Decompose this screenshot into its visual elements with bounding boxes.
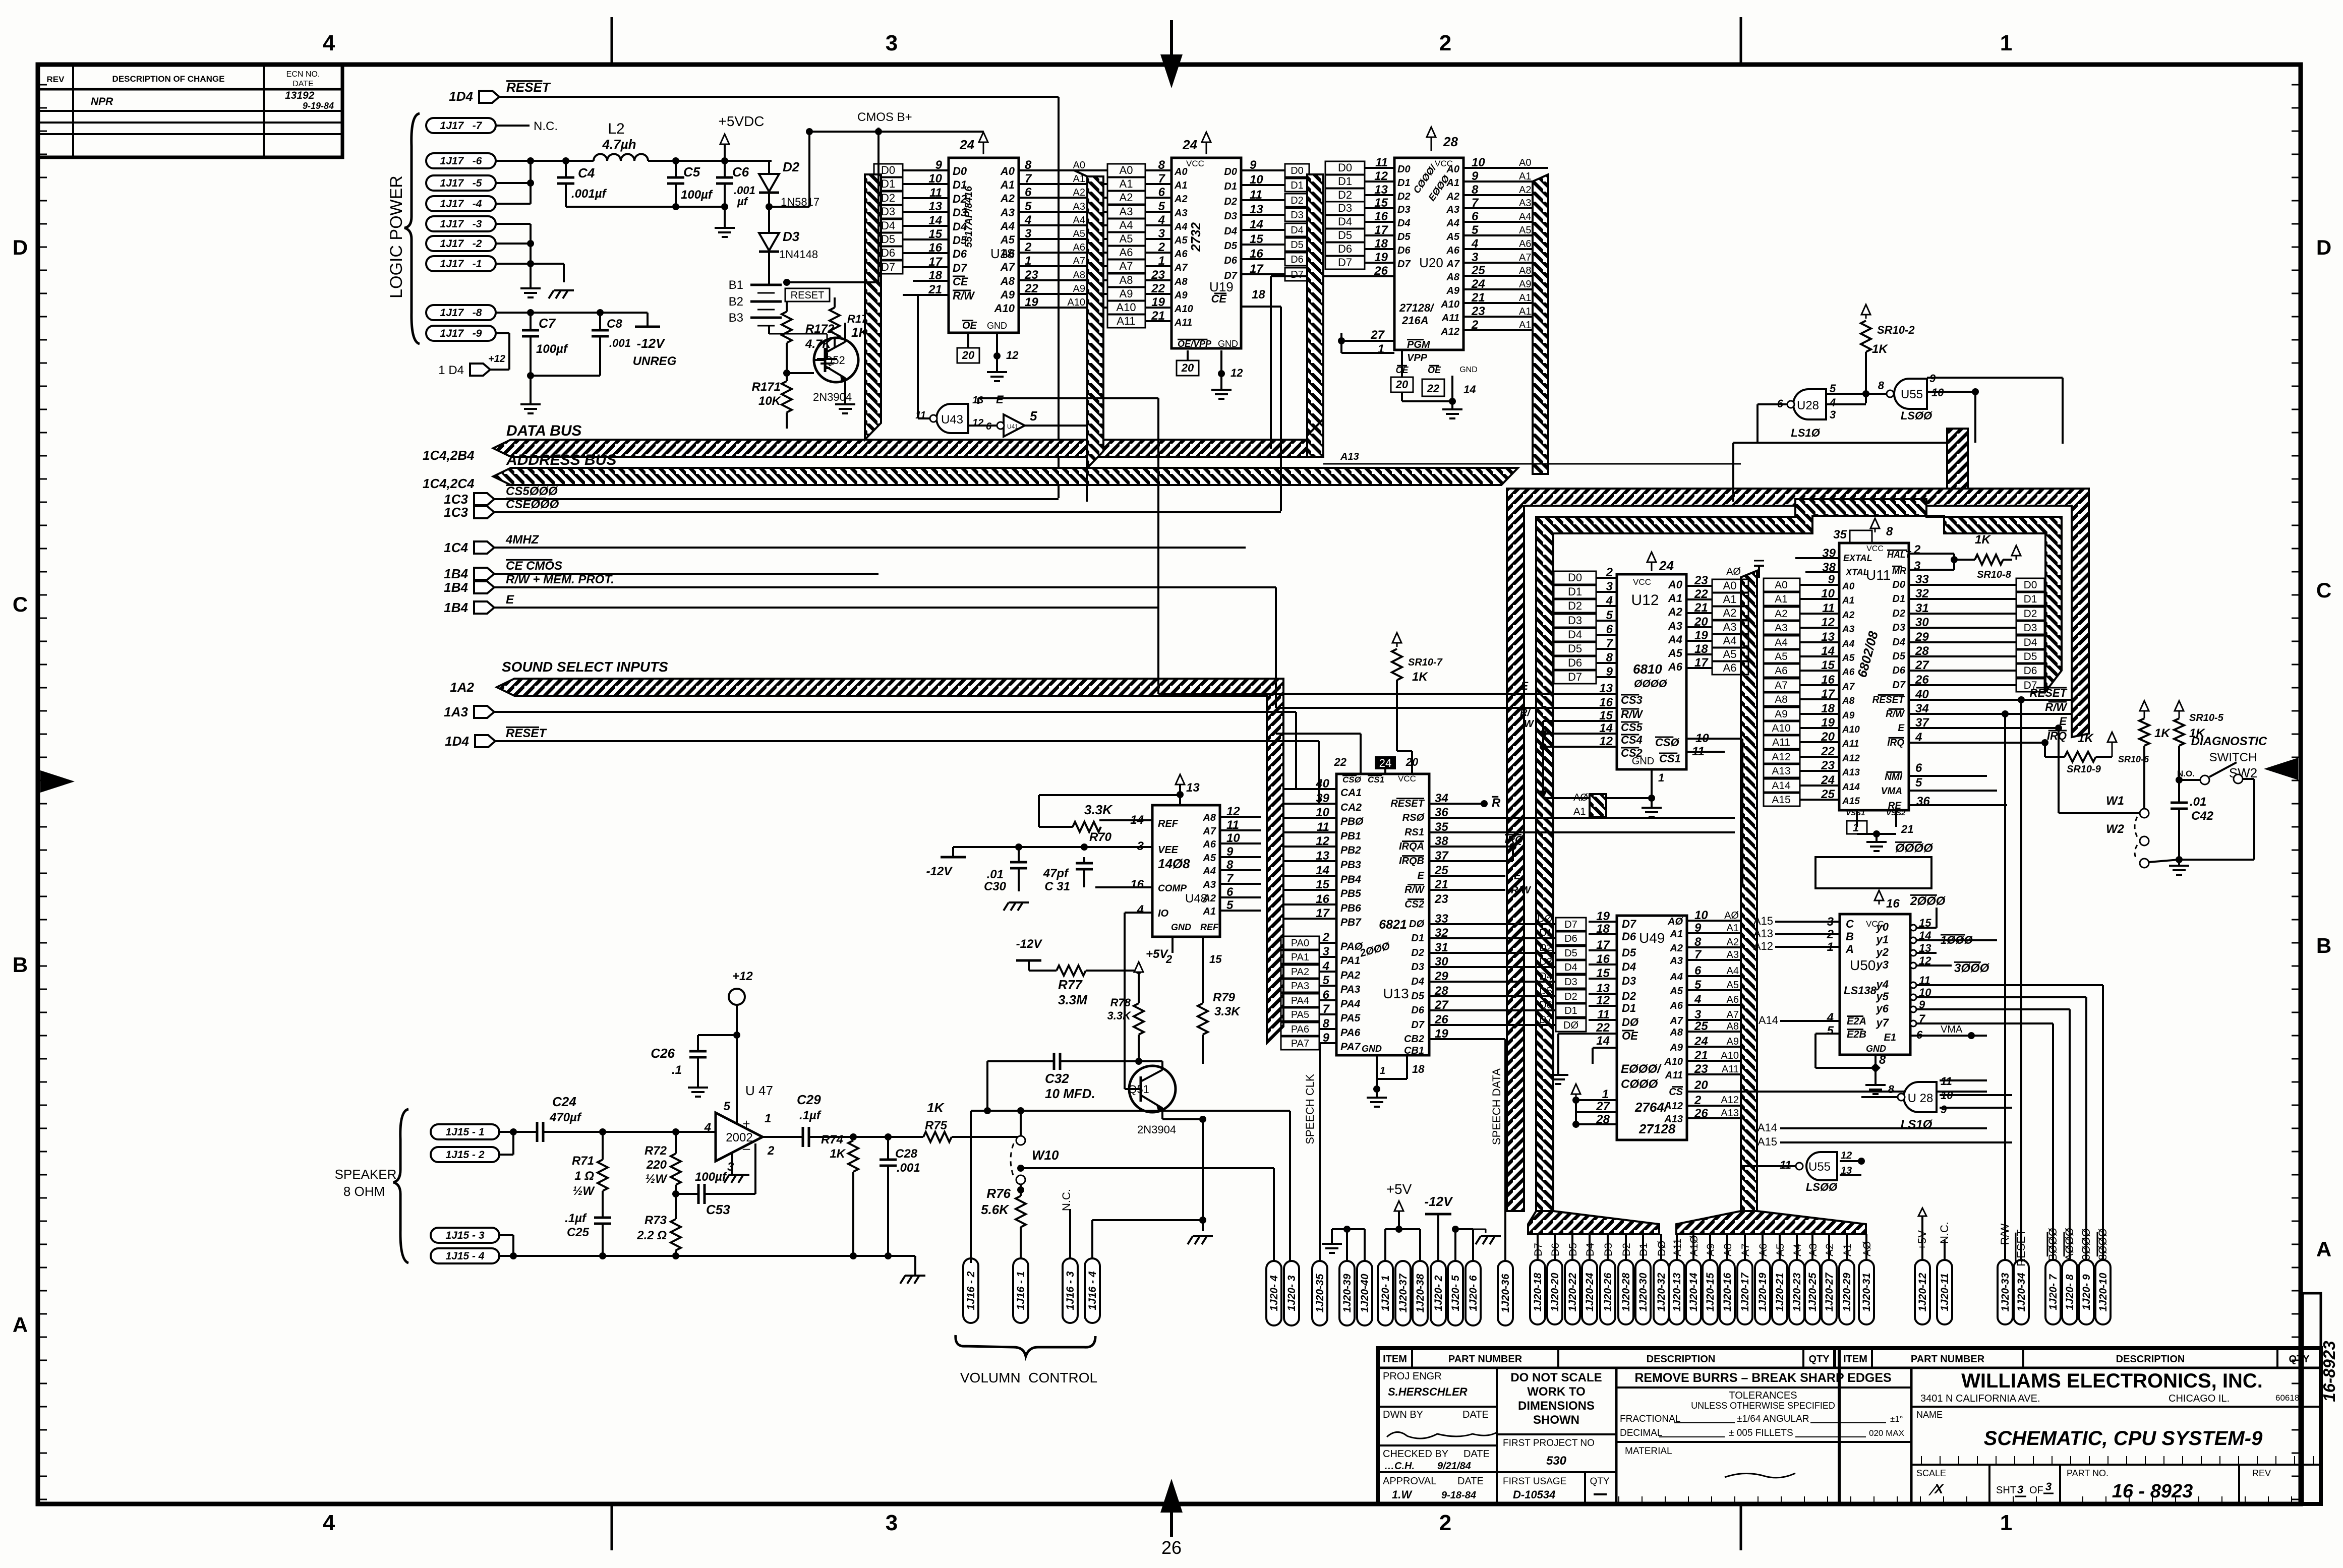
- svg-text:A1: A1: [1669, 929, 1683, 940]
- svg-text:D2: D2: [2024, 608, 2037, 620]
- svg-text:REV: REV: [2252, 1468, 2271, 1478]
- pill 1J15-2: [431, 1147, 499, 1162]
- svg-text:D3: D3: [783, 229, 800, 244]
- ground under U20: [1442, 403, 1462, 418]
- svg-text:8: 8: [1888, 1083, 1895, 1096]
- wire Y outputs: [1937, 928, 2103, 1260]
- svg-text:1D4: 1D4: [445, 734, 469, 749]
- svg-text:R/W + MEM. PROT.: R/W + MEM. PROT.: [506, 573, 614, 586]
- svg-text:D1: D1: [1539, 928, 1552, 939]
- svg-text:+12: +12: [732, 970, 753, 983]
- svg-text:A1: A1: [1573, 806, 1586, 817]
- svg-text:11: 11: [929, 186, 942, 200]
- svg-text:A10: A10: [1174, 304, 1193, 315]
- svg-text:A8: A8: [1000, 275, 1015, 287]
- svg-text:12: 12: [1599, 735, 1613, 748]
- svg-text:C: C: [1846, 918, 1854, 930]
- PIA U13 6821: [1276, 734, 1586, 1093]
- zone label 4 bottom: [323, 1511, 335, 1535]
- label RESET at R172: [785, 282, 830, 301]
- svg-text:1.W: 1.W: [1392, 1488, 1413, 1501]
- svg-text:A9: A9: [1727, 1036, 1739, 1047]
- wire U12 RW label: [1520, 707, 1535, 730]
- node label 0000: [1895, 841, 1934, 855]
- wire 1J17-8 rail: [496, 309, 648, 316]
- svg-text:1J20- 3: 1J20- 3: [1286, 1275, 1298, 1311]
- svg-text:8: 8: [1025, 158, 1032, 172]
- DAC U48 1408: [1084, 774, 1261, 966]
- wire SW2 net: [2073, 717, 2254, 860]
- pill 1J16-3: [1063, 1258, 1078, 1323]
- svg-text:A3: A3: [1723, 621, 1737, 633]
- part number rotated top: [2320, 1341, 2338, 1402]
- svg-text:4: 4: [1158, 213, 1165, 227]
- svg-text:R78: R78: [1110, 996, 1131, 1009]
- svg-text:15: 15: [1250, 232, 1263, 246]
- ground under C26: [688, 1081, 708, 1097]
- diode D3 1N4148: [759, 217, 818, 272]
- svg-text:9: 9: [1941, 1103, 1947, 1116]
- svg-text:A2: A2: [1669, 943, 1683, 954]
- resistor SR10-9 1K: [2045, 732, 2117, 775]
- svg-text:CØØØ: CØØØ: [1621, 1077, 1659, 1091]
- svg-text:1J20-17: 1J20-17: [1739, 1272, 1751, 1311]
- svg-text:C: C: [2316, 578, 2331, 602]
- svg-text:D3: D3: [1291, 210, 1304, 221]
- svg-text:PART NUMBER: PART NUMBER: [1911, 1354, 1985, 1365]
- svg-text:A8: A8: [1727, 1021, 1739, 1032]
- svg-text:PA6: PA6: [1340, 1027, 1361, 1039]
- svg-text:1: 1: [1025, 254, 1031, 268]
- svg-text:020 MAX: 020 MAX: [1869, 1428, 1904, 1438]
- svg-text:1J17 -3: 1J17 -3: [440, 218, 482, 230]
- svg-text:D3: D3: [1411, 961, 1424, 973]
- resistor SR10-2 1K: [1861, 305, 1915, 403]
- capacitor C53 100uf: [672, 1170, 755, 1217]
- pill 1J16-1: [1013, 1258, 1028, 1323]
- svg-text:1J20-27: 1J20-27: [1824, 1272, 1835, 1311]
- connector pill 1J20-2: [1431, 1261, 1446, 1325]
- svg-text:A8: A8: [1519, 265, 1531, 276]
- svg-text:1J20-40: 1J20-40: [1359, 1274, 1371, 1312]
- svg-text:APPROVAL: APPROVAL: [1383, 1476, 1436, 1487]
- wire Q52 collector: [835, 323, 845, 342]
- svg-text:A1: A1: [1446, 177, 1459, 189]
- svg-text:SR10-9: SR10-9: [2067, 764, 2101, 775]
- svg-text:+5V: +5V: [1146, 947, 1168, 961]
- connector pill 1J20-15: [1703, 1260, 1718, 1324]
- svg-text:14: 14: [1596, 1034, 1610, 1048]
- svg-text:DØ: DØ: [1656, 1241, 1668, 1257]
- svg-text:A7: A7: [1740, 1243, 1751, 1256]
- zone letter A right: [2316, 1237, 2331, 1261]
- svg-text:6: 6: [1472, 210, 1479, 223]
- svg-text:1J17 -1: 1J17 -1: [440, 258, 482, 270]
- svg-text:IRQ: IRQ: [2047, 730, 2067, 742]
- zone divider tick top right: [1740, 17, 1742, 65]
- registration arrow top center: [1160, 20, 1183, 88]
- ground 1J20-39: [1322, 1238, 1342, 1253]
- connector pill 1J20-24: [1582, 1260, 1597, 1324]
- zone label 1 top: [2000, 31, 2012, 55]
- svg-text:D5: D5: [1568, 642, 1582, 655]
- svg-text:PBØ: PBØ: [1340, 816, 1364, 827]
- bus riser U19 data: [1307, 419, 1323, 457]
- svg-text:A3: A3: [1519, 198, 1531, 209]
- svg-text:D1: D1: [1397, 177, 1411, 189]
- svg-text:RS1: RS1: [1404, 827, 1424, 838]
- svg-text:A5: A5: [1446, 231, 1459, 243]
- svg-text:A13: A13: [1772, 765, 1790, 777]
- svg-text:1J20-15: 1J20-15: [1705, 1273, 1716, 1311]
- svg-text:A2: A2: [1202, 893, 1216, 904]
- svg-text:A4: A4: [1723, 634, 1737, 647]
- svg-text:OF: OF: [2029, 1485, 2043, 1496]
- svg-text:NAME: NAME: [1916, 1410, 1943, 1420]
- connector pill 1J20-31: [1859, 1260, 1874, 1324]
- svg-text:A3: A3: [1842, 624, 1855, 635]
- svg-text:D5: D5: [1338, 229, 1352, 242]
- svg-text:1K: 1K: [1412, 670, 1428, 684]
- svg-text:CA2: CA2: [1340, 802, 1362, 813]
- svg-text:1J20-31: 1J20-31: [1861, 1273, 1872, 1311]
- connector pill 1J20-25: [1805, 1260, 1820, 1324]
- svg-text:60618: 60618: [2275, 1393, 2299, 1403]
- svg-text:23: 23: [1821, 759, 1835, 772]
- svg-text:9: 9: [1323, 1031, 1330, 1045]
- gate U55 LS00 (top): [1878, 372, 1944, 422]
- wire U47 fb: [754, 1143, 756, 1194]
- svg-text:CS1: CS1: [1368, 775, 1384, 785]
- bus band CPU outer top: [1507, 489, 2089, 1211]
- zone label 3 bottom: [886, 1511, 898, 1535]
- svg-text:7: 7: [1323, 1002, 1330, 1016]
- svg-text:5: 5: [1606, 609, 1613, 622]
- svg-text:2: 2: [1439, 1511, 1451, 1535]
- svg-text:U28: U28: [1797, 399, 1819, 412]
- svg-text:D1: D1: [1892, 593, 1905, 605]
- svg-text:8: 8: [1472, 183, 1479, 197]
- svg-text:8: 8: [1606, 651, 1613, 665]
- svg-text:1J16 - 3: 1J16 - 3: [1065, 1271, 1076, 1310]
- svg-text:14: 14: [1821, 644, 1835, 658]
- connector pill 1J20-27: [1822, 1260, 1837, 1324]
- capacitor C30 .01: [953, 843, 1152, 893]
- svg-text:C4: C4: [578, 165, 595, 180]
- capacitor C8: [592, 313, 631, 376]
- svg-text:OE: OE: [1622, 1030, 1638, 1042]
- resistor R76 5.6K: [981, 1186, 1026, 1263]
- svg-text:ITEM: ITEM: [1383, 1354, 1407, 1365]
- svg-text:1J15 - 1: 1J15 - 1: [445, 1126, 484, 1138]
- svg-text:W: W: [1524, 718, 1535, 730]
- wire U13 control right: [1429, 792, 1735, 896]
- svg-text:2: 2: [1471, 318, 1479, 332]
- svg-text:D6: D6: [1397, 245, 1411, 256]
- wire C32 to W10: [0, 0, 1, 1]
- wire +5V rail: [1385, 1229, 1420, 1262]
- inductor L2: [594, 120, 648, 161]
- svg-text:D7: D7: [1568, 671, 1582, 683]
- svg-text:D3: D3: [881, 205, 895, 218]
- svg-text:4.7µh: 4.7µh: [602, 137, 636, 152]
- transistor Q51 2N3904: [1125, 1066, 1176, 1136]
- svg-text:B1: B1: [729, 278, 743, 292]
- svg-text:8: 8: [1158, 158, 1165, 172]
- svg-text:9-19-84: 9-19-84: [303, 101, 334, 111]
- wire L2 to C5 C6: [648, 157, 772, 164]
- ground U49 OE: [1548, 1064, 1593, 1084]
- svg-text:C5: C5: [683, 164, 700, 179]
- svg-text:y2: y2: [1876, 946, 1889, 958]
- svg-text:PA3: PA3: [1291, 981, 1309, 992]
- RAM U12 6810: [1531, 552, 1742, 769]
- svg-text:D5: D5: [1539, 986, 1552, 997]
- capacitor C6: [716, 161, 755, 208]
- svg-text:12: 12: [1231, 367, 1243, 379]
- svg-text:C28: C28: [895, 1147, 918, 1161]
- svg-text:DATE: DATE: [1457, 1476, 1484, 1487]
- connector pill 1J20-3: [1284, 1261, 1299, 1325]
- svg-text:y0: y0: [1876, 921, 1889, 933]
- svg-text:24: 24: [959, 137, 974, 152]
- svg-text:18: 18: [1374, 237, 1388, 251]
- svg-text:9: 9: [1472, 169, 1479, 183]
- node labels RESET RW E IRQ right: [2030, 687, 2068, 742]
- bus crossover U13 A0A1: [1590, 794, 1606, 817]
- svg-text:13: 13: [1250, 203, 1263, 216]
- svg-text:A5: A5: [1842, 653, 1855, 664]
- svg-text:A14: A14: [1758, 1121, 1777, 1134]
- svg-text:1: 1: [765, 1112, 771, 1125]
- svg-text:3ØØØ: 3ØØØ: [1954, 961, 1990, 975]
- svg-text:A1: A1: [1842, 1243, 1853, 1256]
- svg-text:6821: 6821: [1379, 918, 1407, 932]
- svg-text:21: 21: [1471, 291, 1485, 305]
- svg-text:4: 4: [1024, 213, 1031, 227]
- svg-text:D1: D1: [1622, 1002, 1636, 1014]
- svg-text:PB3: PB3: [1340, 859, 1361, 871]
- svg-text:22: 22: [1024, 282, 1038, 295]
- svg-text:A1: A1: [1842, 595, 1854, 606]
- svg-text:1J20-14: 1J20-14: [1688, 1273, 1700, 1311]
- svg-text:1J20- 4: 1J20- 4: [1268, 1275, 1280, 1311]
- svg-text:18: 18: [1412, 1063, 1425, 1075]
- svg-text:21: 21: [1694, 601, 1708, 615]
- svg-text:RESET: RESET: [506, 727, 547, 740]
- svg-text:D4: D4: [881, 219, 895, 232]
- svg-text:9: 9: [1606, 665, 1613, 679]
- svg-text:E: E: [1898, 723, 1905, 734]
- svg-text:470µf: 470µf: [549, 1111, 582, 1124]
- svg-text:R70: R70: [1089, 830, 1112, 844]
- svg-text:1J20-12: 1J20-12: [1917, 1273, 1928, 1311]
- svg-text:R171: R171: [752, 380, 781, 394]
- svg-text:A3: A3: [1807, 1243, 1819, 1256]
- svg-text:8: 8: [1879, 1053, 1886, 1067]
- svg-text:24: 24: [1182, 137, 1197, 152]
- svg-text:12: 12: [1316, 834, 1329, 848]
- svg-text:U49: U49: [1639, 930, 1665, 946]
- svg-text:100µf: 100µf: [695, 1170, 727, 1184]
- svg-text:CS5: CS5: [1621, 721, 1643, 734]
- pill 1J20-33: [1998, 1260, 2013, 1324]
- svg-text:17: 17: [1250, 262, 1264, 276]
- svg-text:10: 10: [928, 172, 942, 186]
- ground under C42: [2169, 860, 2189, 875]
- diode D2 1N5817: [756, 159, 819, 217]
- svg-text:4: 4: [1827, 1011, 1834, 1024]
- svg-text:W2: W2: [2106, 822, 2125, 836]
- svg-text:R/W: R/W: [1404, 884, 1425, 895]
- svg-text:D1: D1: [881, 177, 895, 190]
- brace volume control: [956, 1335, 1095, 1356]
- svg-text:1J20-33: 1J20-33: [2000, 1273, 2011, 1311]
- svg-text:27128/: 27128/: [1399, 301, 1435, 314]
- pill 1J15-3: [431, 1228, 499, 1243]
- brace speaker: [393, 1109, 408, 1263]
- svg-text:A3: A3: [1174, 208, 1188, 219]
- svg-text:RESET: RESET: [791, 290, 825, 301]
- svg-text:C32: C32: [1045, 1071, 1069, 1086]
- svg-text:A12: A12: [1842, 753, 1860, 764]
- svg-text:1J20-28: 1J20-28: [1620, 1273, 1632, 1311]
- wire RESET RW long: [2002, 696, 2025, 1260]
- svg-text:REV: REV: [47, 75, 65, 84]
- svg-text:19: 19: [1374, 251, 1388, 264]
- svg-text:15: 15: [1821, 658, 1835, 672]
- svg-text:D2: D2: [1291, 195, 1304, 206]
- svg-text:15: 15: [1599, 709, 1613, 722]
- svg-text:D7: D7: [1291, 269, 1304, 280]
- connector 1D4 +12: [438, 333, 509, 377]
- svg-text:ITEM: ITEM: [1843, 1354, 1867, 1365]
- svg-text:SCALE: SCALE: [1916, 1468, 1946, 1478]
- svg-text:4: 4: [1829, 396, 1836, 409]
- svg-text:CS2: CS2: [1404, 899, 1424, 910]
- svg-text:D6: D6: [1622, 930, 1636, 943]
- svg-text:VMA: VMA: [1941, 1024, 1963, 1035]
- svg-text:D7: D7: [1224, 270, 1237, 281]
- svg-text:10: 10: [1472, 156, 1485, 169]
- svg-text:A8: A8: [1174, 276, 1188, 287]
- svg-text:CB1: CB1: [1404, 1045, 1424, 1056]
- svg-text:8ØØØ: 8ØØØ: [2096, 1228, 2109, 1260]
- svg-text:SWITCH: SWITCH: [2209, 751, 2257, 764]
- svg-text:1J15 - 4: 1J15 - 4: [445, 1250, 484, 1262]
- svg-text:R74: R74: [821, 1133, 843, 1147]
- connector pill 1J20-23: [1789, 1260, 1804, 1324]
- ground under U18: [987, 366, 1007, 381]
- svg-text:A15: A15: [1753, 915, 1773, 927]
- svg-text:A13: A13: [1721, 1108, 1739, 1119]
- ROM U49 27128: [1558, 909, 1987, 1140]
- connector pill 1J20-40: [1357, 1261, 1372, 1325]
- svg-text:RESET: RESET: [2030, 687, 2068, 699]
- svg-text:A9: A9: [1519, 279, 1531, 290]
- svg-text:SPEAKER: SPEAKER: [335, 1167, 397, 1182]
- bus riser U18-U19 address: [1074, 170, 1103, 468]
- svg-text:1J20- 8: 1J20- 8: [2064, 1274, 2076, 1310]
- capacitor C7: [522, 313, 568, 376]
- svg-text:A7: A7: [1669, 1015, 1683, 1027]
- svg-text:3401 N CALIFORNIA AVE.: 3401 N CALIFORNIA AVE.: [1920, 1393, 2040, 1404]
- wire U28b pins: [1861, 1036, 2012, 1108]
- bus funnel D pills: [1528, 1211, 1659, 1234]
- svg-text:CA1: CA1: [1340, 787, 1362, 799]
- svg-text:4: 4: [1137, 903, 1144, 917]
- connector pill 1J17-8: [426, 305, 496, 320]
- svg-text:13192: 13192: [285, 90, 315, 101]
- jumper W10: [1011, 1136, 1059, 1184]
- svg-text:DIAGNOSTIC: DIAGNOSTIC: [2191, 735, 2267, 748]
- svg-text:D3: D3: [1539, 956, 1552, 968]
- svg-text:D6: D6: [881, 247, 895, 259]
- svg-text:D7: D7: [1892, 680, 1905, 691]
- svg-text:A0: A0: [1842, 581, 1855, 592]
- connector pill 1J20-20: [1547, 1260, 1562, 1324]
- svg-text:18: 18: [1821, 702, 1835, 715]
- svg-text:D3: D3: [2024, 622, 2037, 634]
- svg-text:CS: CS: [1669, 1087, 1683, 1098]
- node label B000: [2046, 1228, 2059, 1261]
- svg-text:13: 13: [928, 200, 942, 213]
- power -12V at C30: [926, 847, 966, 878]
- svg-text:DESCRIPTION: DESCRIPTION: [1647, 1354, 1716, 1365]
- svg-text:35: 35: [1833, 528, 1847, 541]
- svg-text:A13: A13: [1664, 1114, 1683, 1125]
- svg-text:DIMENSIONS: DIMENSIONS: [1518, 1399, 1595, 1413]
- svg-text:R/: R/: [1520, 707, 1531, 718]
- wire U28 in 6: [1758, 404, 1787, 443]
- wire W2 bottom: [2149, 856, 2183, 863]
- svg-text:1J20-37: 1J20-37: [1397, 1273, 1409, 1312]
- svg-text:D0: D0: [953, 165, 967, 177]
- svg-text:D2: D2: [1892, 608, 1905, 619]
- svg-text:3: 3: [1472, 251, 1479, 264]
- bus riser U20 address: [1533, 174, 1548, 474]
- svg-text:LOGIC POWER: LOGIC POWER: [387, 175, 406, 298]
- registration arrow right middle: [2264, 758, 2298, 780]
- svg-text:PART NUMBER: PART NUMBER: [1448, 1354, 1522, 1365]
- ROM U20 27128: [1271, 127, 1548, 449]
- svg-text:WORK TO: WORK TO: [1527, 1385, 1586, 1399]
- svg-text:26: 26: [1161, 1537, 1182, 1558]
- svg-text:1J20-16: 1J20-16: [1722, 1273, 1733, 1311]
- svg-text:D3: D3: [1568, 614, 1582, 627]
- svg-text:16: 16: [1596, 952, 1610, 966]
- svg-text:8: 8: [1323, 1017, 1330, 1031]
- capacitor C4: [557, 161, 607, 207]
- svg-text:16: 16: [1886, 897, 1900, 911]
- svg-text:X: X: [1934, 1481, 1944, 1496]
- svg-text:VCC: VCC: [1866, 545, 1884, 553]
- svg-text:A3: A3: [1446, 204, 1459, 215]
- svg-text:1: 1: [1158, 254, 1165, 268]
- svg-text:Q51: Q51: [1128, 1083, 1149, 1096]
- connector 1A3: [444, 704, 1336, 789]
- chassis ground C30: [1004, 902, 1029, 911]
- svg-text:1K: 1K: [927, 1100, 945, 1115]
- svg-text:D2: D2: [1338, 189, 1352, 201]
- wire RW long: [1276, 587, 1543, 708]
- svg-text:10K: 10K: [758, 394, 782, 408]
- svg-text:.01: .01: [987, 868, 1004, 881]
- wire 1J16-2 up: [970, 1111, 972, 1263]
- svg-text:A0: A0: [1073, 160, 1085, 171]
- svg-text:U41: U41: [1007, 423, 1018, 430]
- svg-text:1J20-39: 1J20-39: [1341, 1274, 1353, 1312]
